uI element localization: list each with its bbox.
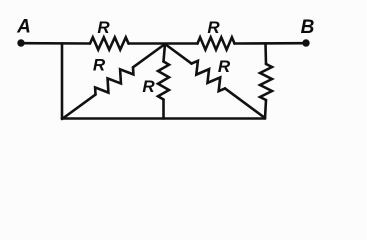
resistor R6 stub from top rail — [264, 44, 267, 65]
wire top rail from R2 to node B — [235, 42, 307, 45]
svg-text:B: B — [301, 17, 315, 38]
resistor R4 stub to bottom rail — [162, 100, 165, 119]
resistor R4 zigzag (middle vertical) — [158, 62, 169, 100]
svg-text:R: R — [218, 57, 231, 76]
svg-text:R: R — [142, 77, 155, 96]
svg-text:R: R — [93, 56, 106, 75]
wire left vertical drop — [61, 44, 64, 119]
resistor R6 zigzag (right vertical) — [260, 64, 272, 100]
wire top rail between R1 and R2 through center node — [129, 42, 198, 45]
resistor R1 (top left) — [90, 37, 129, 49]
svg-text:R: R — [207, 18, 220, 37]
resistor R5 lead to bottom-right node — [225, 88, 265, 118]
resistor R4 stub from center node — [164, 44, 166, 62]
resistor R5 zigzag (right diagonal) — [188, 59, 229, 93]
resistor R6 stub to bottom-right node — [265, 100, 266, 119]
wire bottom rail — [62, 117, 265, 120]
resistor R3 lead from bottom-left corner — [62, 95, 96, 119]
resistor R3 zigzag (left diagonal) — [92, 62, 137, 99]
wire top rail from node A to resistor R1 — [21, 42, 90, 45]
resistor R5 lead from center node — [165, 44, 192, 64]
node A terminal dot — [17, 39, 24, 46]
svg-text:A: A — [16, 17, 31, 38]
resistor R2 (top right) — [198, 37, 235, 49]
svg-text:R: R — [97, 18, 110, 37]
node B terminal dot — [302, 39, 309, 46]
resistor R3 lead to center node — [133, 44, 165, 67]
